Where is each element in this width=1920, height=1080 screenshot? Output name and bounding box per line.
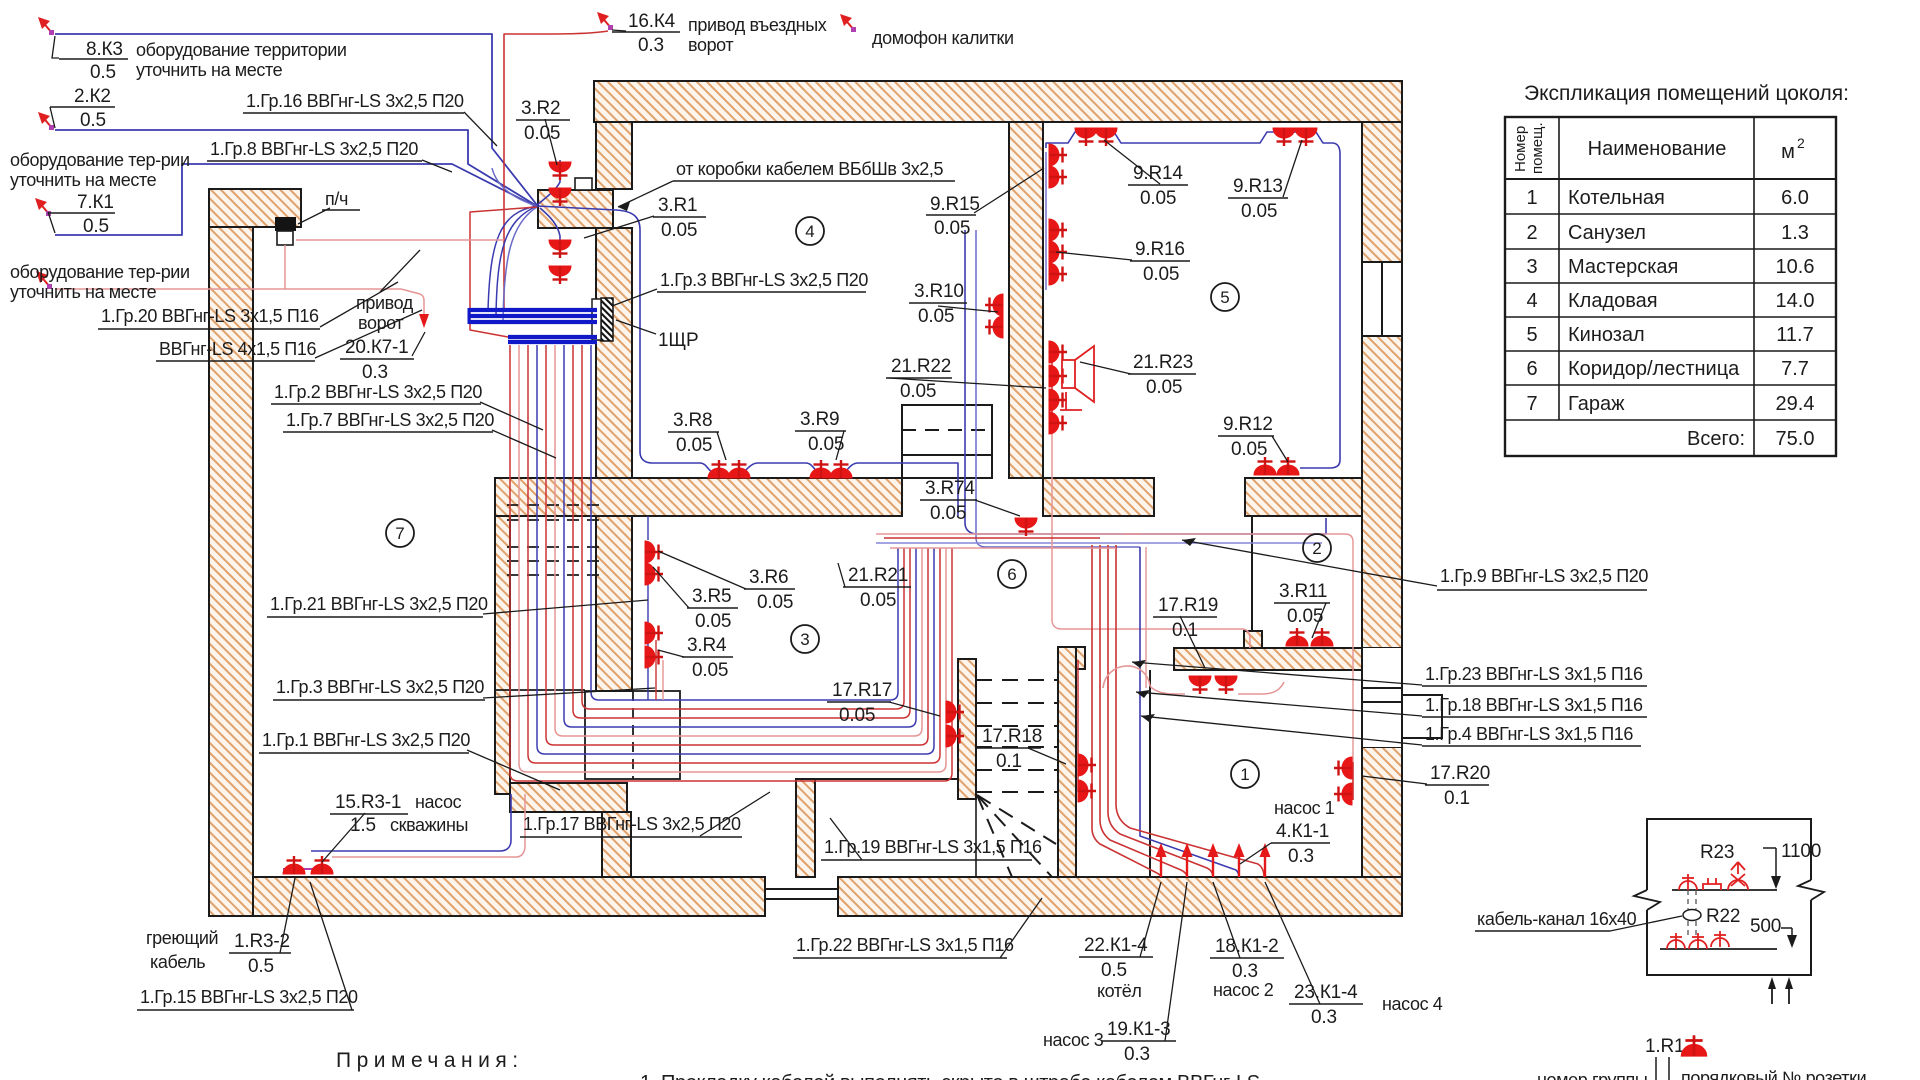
svg-text:11.7: 11.7 <box>1776 324 1813 346</box>
detail upper baseline <box>1672 889 1777 891</box>
wire red vertical to pumps area <box>1145 547 1147 688</box>
svg-text:0.3: 0.3 <box>638 35 664 56</box>
room 4 circle <box>796 217 824 245</box>
wall stairs right notch <box>1076 647 1085 669</box>
svg-text:1.Гр.7 ВВГнг-LS 3х2,5 П20: 1.Гр.7 ВВГнг-LS 3х2,5 П20 <box>286 410 494 430</box>
table rows <box>1526 187 1814 450</box>
svg-text:уточнить на месте: уточнить на месте <box>10 282 157 302</box>
svg-text:1.R3-2: 1.R3-2 <box>234 931 290 952</box>
svg-text:1.R1: 1.R1 <box>1645 1036 1684 1057</box>
svg-text:1.Гр.18 ВВГнг-LS 3х1,5 П16: 1.Гр.18 ВВГнг-LS 3х1,5 П16 <box>1425 695 1643 715</box>
wire bundle v3 <box>537 345 934 754</box>
svg-text:3.R2: 3.R2 <box>521 98 560 119</box>
svg-text:0.05: 0.05 <box>808 434 844 455</box>
socket 9.R16 group left wall room5 <box>1049 219 1067 241</box>
svg-text:0.05: 0.05 <box>1241 201 1277 222</box>
svg-text:0.05: 0.05 <box>900 381 936 402</box>
svg-text:0.3: 0.3 <box>1288 846 1314 867</box>
wire bundle v7 <box>573 345 910 718</box>
svg-text:Кладовая: Кладовая <box>1568 290 1658 312</box>
leader 9.R12 <box>1272 436 1288 462</box>
svg-text:3.R6: 3.R6 <box>749 567 788 588</box>
detail cable channel ellipse <box>1683 910 1701 921</box>
socket 3.R10 pair <box>985 294 1003 316</box>
leader 3.R6 <box>658 551 746 589</box>
svg-text:номер группы: номер группы <box>1537 1070 1647 1080</box>
svg-text:0.05: 0.05 <box>757 592 793 613</box>
wire 17.R18 feed <box>1077 660 1079 792</box>
stair vertical edge <box>975 659 977 877</box>
wire fan red e <box>470 207 537 337</box>
svg-text:17.R19: 17.R19 <box>1158 595 1218 616</box>
wire gate drive arrowhead <box>419 314 429 328</box>
leader 1.Gr.2 <box>480 402 543 430</box>
detail dashed drops <box>1688 890 1696 936</box>
wire room 6 red across <box>876 533 1141 535</box>
junction box hatched block <box>538 190 613 228</box>
vent box B1 outline <box>585 691 680 779</box>
p/ch black box <box>275 217 296 231</box>
socket 9.R15 group left wall room5 <box>1049 144 1067 166</box>
svg-text:Мастерская: Мастерская <box>1568 256 1678 278</box>
svg-text:1.Гр.20 ВВГнг-LS 3х1,5 П16: 1.Гр.20 ВВГнг-LS 3х1,5 П16 <box>101 306 319 326</box>
wall under stairs vertical <box>796 779 815 877</box>
wire bundle v1 <box>519 345 946 772</box>
svg-text:скважины: скважины <box>390 815 468 835</box>
svg-text:3.R11: 3.R11 <box>1279 581 1327 602</box>
svg-text:порядковый № розетки: порядковый № розетки <box>1681 1068 1866 1080</box>
wire fan blue c <box>496 206 537 316</box>
svg-text:1. Прокладку кабелей выполнять: 1. Прокладку кабелей выполнять скрыто в … <box>640 1072 1260 1080</box>
socket 21.R23 column <box>1049 341 1067 363</box>
socket 9.R14 group <box>1075 128 1097 146</box>
svg-text:Наименование: Наименование <box>1588 138 1727 160</box>
break zigzag left <box>1634 890 1660 910</box>
wall between rooms 4 and 5 <box>1009 122 1043 478</box>
svg-text:2: 2 <box>1526 222 1537 244</box>
leader 15.R3-1 <box>322 813 365 862</box>
wire bundle v0 <box>510 345 952 781</box>
svg-text:7.7: 7.7 <box>1781 358 1809 380</box>
svg-text:19.К1-3: 19.К1-3 <box>1107 1019 1171 1040</box>
external arrow 2.K2 <box>38 112 54 130</box>
svg-text:8.К3: 8.К3 <box>86 39 123 60</box>
under stair boundary line <box>815 778 958 780</box>
sockets and symbols <box>35 12 1352 877</box>
door opening bottom wall <box>765 877 838 916</box>
wire corridor vertical 3 <box>1108 545 1213 877</box>
svg-text:0.05: 0.05 <box>918 306 954 327</box>
socket 3.R5 3.R6 group room3 left <box>645 541 663 563</box>
svg-text:3.R9: 3.R9 <box>800 409 839 430</box>
room 6 circle <box>998 560 1026 588</box>
svg-text:4: 4 <box>1526 290 1537 312</box>
svg-text:1: 1 <box>1526 187 1537 209</box>
garage vent edge line <box>495 689 585 691</box>
svg-text:0.3: 0.3 <box>1232 961 1258 982</box>
wire bundle v2 <box>528 345 940 763</box>
leader 1.Gr.20 <box>320 282 398 327</box>
svg-text:0.05: 0.05 <box>860 590 896 611</box>
svg-text:1.Гр.22 ВВГнг-LS 3х1,5 П16: 1.Гр.22 ВВГнг-LS 3х1,5 П16 <box>796 935 1014 955</box>
explication table <box>1505 82 1849 456</box>
leader 17.R18 <box>1028 748 1066 764</box>
wire garage floor blue <box>311 794 511 851</box>
wire 2.K2 blue external <box>55 130 537 206</box>
svg-text:привод: привод <box>356 293 414 313</box>
leader 1.Gr.9 <box>1182 540 1437 586</box>
svg-text:помещ.: помещ. <box>1529 122 1546 174</box>
svg-text:п/ч: п/ч <box>325 189 348 209</box>
svg-text:21.R23: 21.R23 <box>1133 352 1193 373</box>
wire corridor vertical 4 blue <box>1140 547 1239 877</box>
wire room 6 sockets 17.R19 <box>1150 682 1284 694</box>
leader 1SHCHR <box>616 320 656 334</box>
leader 1.Gr.4 <box>1141 716 1422 745</box>
leader 1.Gr.7 <box>492 430 556 458</box>
svg-text:1.Гр.3 ВВГнг-LS 3х2,5 П20: 1.Гр.3 ВВГнг-LS 3х2,5 П20 <box>660 270 868 290</box>
leader 1.Gr.1 <box>467 750 560 790</box>
wire gate drive red <box>55 289 424 320</box>
leader 1.Gr.16 <box>464 112 497 146</box>
svg-text:3.R5: 3.R5 <box>692 586 731 607</box>
wire fan blue a <box>492 168 537 206</box>
svg-text:1.Гр.19 ВВГнг-LS 3х1,5 П16: 1.Гр.19 ВВГнг-LS 3х1,5 П16 <box>824 837 1042 857</box>
table grid <box>1505 117 1836 456</box>
svg-text:3: 3 <box>1526 256 1537 278</box>
svg-text:9.R14: 9.R14 <box>1133 163 1183 184</box>
wire corridor vertical 1 <box>1092 545 1161 877</box>
leader 1.Gr.22 <box>1000 898 1042 958</box>
svg-text:4: 4 <box>805 222 814 241</box>
svg-text:0.5: 0.5 <box>80 110 106 131</box>
wall bottom band right of door <box>838 877 1402 916</box>
leader 3.R5 <box>653 567 689 608</box>
leader 2.K2 <box>50 107 55 128</box>
socket heating cable pair garage <box>283 856 305 874</box>
svg-text:1.Гр.9 ВВГнг-LS 3х2,5 П20: 1.Гр.9 ВВГнг-LS 3х2,5 П20 <box>1440 566 1648 586</box>
svg-text:1.Гр.4 ВВГнг-LS 3х1,5 П16: 1.Гр.4 ВВГнг-LS 3х1,5 П16 <box>1425 724 1633 744</box>
socket 3.R11 pair <box>1286 628 1308 646</box>
svg-text:кабель-канал 16х40: кабель-канал 16х40 <box>1477 909 1637 929</box>
socket 3.R4 group room3 left <box>645 622 663 644</box>
svg-text:1.Гр.21 ВВГнг-LS 3х2,5 П20: 1.Гр.21 ВВГнг-LS 3х2,5 П20 <box>270 594 488 614</box>
wire room 5 red speaker <box>1051 350 1053 430</box>
pump arrow 3 <box>1208 843 1219 877</box>
svg-text:насос 3: насос 3 <box>1043 1030 1104 1050</box>
svg-text:0.05: 0.05 <box>661 220 697 241</box>
wire 16.K4 red external <box>504 31 608 310</box>
1SHCHR panel black hatched <box>601 298 613 341</box>
walls <box>209 81 1402 916</box>
bundle bars left cap <box>468 308 471 324</box>
detail upper lamp symbol <box>1728 862 1748 890</box>
external arrow equipment <box>36 271 52 289</box>
svg-text:1.5: 1.5 <box>350 815 376 836</box>
svg-text:16.К4: 16.К4 <box>628 11 676 32</box>
pump arrow 4 <box>1234 843 1245 877</box>
leader 3.R4 <box>658 650 684 657</box>
leader 1.Gr.23 <box>1132 662 1422 685</box>
leader 21.R22 <box>889 378 1046 388</box>
svg-text:0.05: 0.05 <box>934 218 970 239</box>
svg-text:2: 2 <box>1797 135 1805 151</box>
svg-text:0.05: 0.05 <box>1287 606 1323 627</box>
wire fan blue d <box>503 207 537 321</box>
detail bottom arrows <box>1772 983 1789 1004</box>
svg-text:6: 6 <box>1526 358 1537 380</box>
wall stairs left band <box>958 659 976 799</box>
svg-text:17.R20: 17.R20 <box>1430 763 1490 784</box>
svg-text:0.1: 0.1 <box>1444 788 1470 809</box>
wall stairs right band <box>1058 647 1076 877</box>
wall small vertical above stairs left <box>495 516 510 794</box>
wall vertical to bottom band <box>602 812 631 877</box>
svg-text:0.3: 0.3 <box>1311 1007 1337 1028</box>
leader 16.K4 <box>612 30 626 31</box>
svg-text:3.R4: 3.R4 <box>687 635 727 656</box>
socket 17.R18 pair <box>1078 754 1096 776</box>
svg-text:R23: R23 <box>1700 842 1734 863</box>
svg-text:5: 5 <box>1220 288 1229 307</box>
wire bundle v4 <box>546 345 928 745</box>
wall left band lower part <box>596 228 632 691</box>
svg-text:2: 2 <box>1312 539 1321 558</box>
svg-text:насос 4: насос 4 <box>1382 994 1443 1014</box>
svg-text:0.05: 0.05 <box>695 611 731 632</box>
svg-text:4.К1-1: 4.К1-1 <box>1276 821 1329 842</box>
pump arrow 1 <box>1156 843 1167 877</box>
wire corridor vertical 2 <box>1100 545 1187 877</box>
svg-text:5: 5 <box>1526 324 1537 346</box>
svg-text:оборудование тер-рии: оборудование тер-рии <box>10 262 190 282</box>
leader 22.K1-4 <box>1140 882 1161 957</box>
svg-text:9.R12: 9.R12 <box>1223 414 1273 435</box>
leader 1.Gr.8 <box>422 160 452 172</box>
svg-text:кабель: кабель <box>150 952 205 972</box>
svg-text:Кинозал: Кинозал <box>1568 324 1645 346</box>
vent shaft B2 dashed <box>507 505 602 575</box>
leader 3.R2 <box>545 119 557 165</box>
leader privod vorot text <box>380 250 420 292</box>
leader 3.R1 <box>584 216 654 238</box>
leader 9.R15 <box>974 168 1044 213</box>
detail lower sockets <box>1667 933 1685 949</box>
svg-text:9.R16: 9.R16 <box>1135 239 1185 260</box>
svg-text:0.3: 0.3 <box>362 362 388 383</box>
svg-text:6.0: 6.0 <box>1781 187 1809 209</box>
svg-text:18.К1-2: 18.К1-2 <box>1215 936 1279 957</box>
svg-text:Коридор/лестница: Коридор/лестница <box>1568 358 1740 380</box>
leader 4.K1-1 <box>1240 843 1271 864</box>
stair treads dashed <box>976 680 1058 877</box>
wire p/ch drop <box>284 245 286 289</box>
svg-text:насос: насос <box>415 792 462 812</box>
wire room 5 left sockets chain <box>1045 152 1047 290</box>
svg-text:котёл: котёл <box>1097 981 1141 1001</box>
wire room 6 blue across <box>876 542 1322 544</box>
wall mid horizontal B <box>1043 478 1154 516</box>
wire corridor vertical 5 <box>1116 545 1264 877</box>
socket 9.R13 group <box>1273 128 1295 146</box>
svg-text:0.05: 0.05 <box>524 123 560 144</box>
svg-text:Номер: Номер <box>1512 126 1529 172</box>
svg-text:0.5: 0.5 <box>1101 960 1127 981</box>
svg-text:R22: R22 <box>1706 906 1740 927</box>
leader lines <box>48 30 1437 1041</box>
bundle bars thick blue second <box>508 337 597 342</box>
svg-text:0.05: 0.05 <box>1140 188 1176 209</box>
leader 1.Gr.18 <box>1136 692 1422 716</box>
detail drawing bottom right <box>1475 819 1866 1080</box>
svg-text:1.3: 1.3 <box>1781 222 1809 244</box>
wire bundle v9 <box>591 345 898 700</box>
svg-text:1.Гр.2 ВВГнг-LS 3х2,5 П20: 1.Гр.2 ВВГнг-LS 3х2,5 П20 <box>274 382 482 402</box>
leader 8.K3 <box>52 36 59 58</box>
svg-text:10.6: 10.6 <box>1776 256 1815 278</box>
wire room 5 red loop <box>1052 432 1250 648</box>
svg-text:м: м <box>1781 141 1795 163</box>
leader 21.R23 <box>1080 362 1131 374</box>
wire room 4 bottom blue to sockets <box>700 463 958 516</box>
leader 3.R8 <box>717 432 726 460</box>
svg-text:0.05: 0.05 <box>839 705 875 726</box>
detail lower baseline <box>1660 948 1777 950</box>
wire 8.K3 blue external <box>55 34 537 205</box>
wall bottom band left of door <box>253 877 765 916</box>
leader 1.Gr.3 upper <box>612 289 657 306</box>
svg-text:1: 1 <box>1240 765 1249 784</box>
pump arrow 5 <box>1260 843 1271 877</box>
pump arrow 2 <box>1182 843 1193 877</box>
svg-text:9.R13: 9.R13 <box>1233 176 1283 197</box>
external arrow 7.K1 <box>35 198 51 216</box>
p/ch white box <box>277 231 293 245</box>
wall right band lower <box>1362 747 1402 877</box>
svg-text:греющий: греющий <box>146 928 218 948</box>
svg-text:23.К1-4: 23.К1-4 <box>1294 982 1358 1003</box>
wall mid horizontal C <box>1245 478 1362 516</box>
svg-text:ворот: ворот <box>688 35 733 55</box>
wire 7.K1 blue external <box>55 164 537 235</box>
socket 3.R9 pair <box>810 460 832 478</box>
leader 1.R3-2 <box>280 878 295 953</box>
wire junction to sockets 3.R2 <box>537 160 560 205</box>
wall room 2 floor notch <box>1244 631 1262 648</box>
svg-text:3: 3 <box>800 630 809 649</box>
leader 17.R20 <box>1362 776 1427 784</box>
external arrow 16.K4 <box>597 12 613 30</box>
leader 3.R11 <box>1312 603 1326 638</box>
wire p/ch red to gate drive <box>296 239 504 241</box>
socket 3.R8 pair <box>708 460 730 478</box>
leader p/ch <box>298 208 330 224</box>
wire bundle v6 <box>564 345 916 727</box>
svg-text:уточнить на месте: уточнить на месте <box>136 60 283 80</box>
svg-text:21.R22: 21.R22 <box>891 356 951 377</box>
leader 3.R9 <box>836 431 844 460</box>
svg-text:1.Гр.17 ВВГнг-LS 3х2,5 П20: 1.Гр.17 ВВГнг-LS 3х2,5 П20 <box>523 814 741 834</box>
wire room 6 band red 2 <box>884 537 1100 539</box>
leader 17.R17 <box>889 702 940 716</box>
svg-text:0.5: 0.5 <box>83 216 109 237</box>
svg-text:Экспликация помещений цоколя:: Экспликация помещений цоколя: <box>1524 82 1849 105</box>
wire 17.R20 horizontal <box>1124 534 1353 762</box>
leader 1.Gr.19 <box>830 818 862 860</box>
leader 1.Gr.17 <box>700 792 770 836</box>
svg-text:1.Гр.15 ВВГнг-LS 3х2,5 П20: 1.Гр.15 ВВГнг-LS 3х2,5 П20 <box>140 987 358 1007</box>
wire bundle v8 <box>582 345 904 709</box>
svg-text:оборудование тер-рии: оборудование тер-рии <box>10 150 190 170</box>
room 7 circle <box>386 519 414 547</box>
svg-text:0.05: 0.05 <box>1143 264 1179 285</box>
svg-text:1.Гр.1 ВВГнг-LS 3х2,5 П20: 1.Гр.1 ВВГнг-LS 3х2,5 П20 <box>262 730 470 750</box>
wire room 3 left sockets feed c <box>662 660 664 700</box>
svg-text:уточнить на месте: уточнить на месте <box>10 170 157 190</box>
speaker 21.R23 symbol <box>1060 346 1094 410</box>
svg-text:0.1: 0.1 <box>996 751 1022 772</box>
leader ot korobki <box>618 181 673 207</box>
svg-text:17.R18: 17.R18 <box>982 726 1042 747</box>
leader 1.Gr.15 <box>310 882 352 1010</box>
wire room 3 left sockets feed a <box>647 516 649 700</box>
door opening right wall <box>1362 648 1442 747</box>
svg-text:3.R8: 3.R8 <box>673 410 712 431</box>
socket 3.R2 pair <box>549 162 571 180</box>
wire junction to sockets 3.R1 <box>540 208 560 258</box>
svg-text:1100: 1100 <box>1781 841 1821 862</box>
svg-text:17.R17: 17.R17 <box>832 680 892 701</box>
socket 17.R20 pair <box>1334 757 1352 779</box>
svg-text:1.Гр.23 ВВГнг-LS 3х1,5 П16: 1.Гр.23 ВВГнг-LS 3х1,5 П16 <box>1425 664 1643 684</box>
svg-text:домофон калитки: домофон калитки <box>872 28 1014 48</box>
svg-text:Всего:: Всего: <box>1687 428 1745 450</box>
svg-text:14.0: 14.0 <box>1776 290 1815 312</box>
svg-text:Гараж: Гараж <box>1568 393 1625 415</box>
svg-text:Примечания:: Примечания: <box>336 1049 524 1072</box>
room 5 circle <box>1211 283 1239 311</box>
svg-text:7.К1: 7.К1 <box>77 192 114 213</box>
svg-text:от коробки кабелем ВБбШв 3х2,5: от коробки кабелем ВБбШв 3х2,5 <box>676 159 944 179</box>
wire shaft second blue <box>976 230 1140 547</box>
svg-text:1.Гр.3 ВВГнг-LS 3х2,5 П20: 1.Гр.3 ВВГнг-LS 3х2,5 П20 <box>276 677 484 697</box>
wire room 3 left sockets feed b <box>655 640 657 700</box>
leader 20.K7-1 <box>412 332 425 356</box>
svg-text:1.Гр.8 ВВГнг-LS 3х2,5 П20: 1.Гр.8 ВВГнг-LS 3х2,5 П20 <box>210 139 418 159</box>
leader 1.Gr.3 lower <box>483 688 655 698</box>
svg-text:1ЩР: 1ЩР <box>658 330 698 351</box>
socket 9.R12 pair <box>1254 457 1276 475</box>
bundle bars thick blue <box>469 310 597 322</box>
leader 7.K1 <box>48 212 55 233</box>
svg-text:75.0: 75.0 <box>1776 428 1815 450</box>
leader 9.R14 <box>1104 140 1160 184</box>
svg-text:2.К2: 2.К2 <box>74 86 111 107</box>
room 3 circle <box>791 625 819 653</box>
external arrow domofon <box>840 14 856 32</box>
wire room 6 band red 3 <box>890 547 1116 549</box>
wall garage top-left block <box>209 189 301 227</box>
svg-text:0.5: 0.5 <box>90 62 116 83</box>
svg-text:9.R15: 9.R15 <box>930 194 980 215</box>
svg-text:привод въездных: привод въездных <box>688 15 827 35</box>
svg-text:1.Гр.16 ВВГнг-LS 3х2,5 П20: 1.Гр.16 ВВГнг-LS 3х2,5 П20 <box>246 91 464 111</box>
leader arrowheads <box>618 202 1196 722</box>
svg-text:3.R1: 3.R1 <box>658 195 697 216</box>
svg-text:20.К7-1: 20.К7-1 <box>345 337 409 358</box>
wall top band upper building <box>594 81 1402 122</box>
leader 9.R16 <box>1056 252 1132 260</box>
